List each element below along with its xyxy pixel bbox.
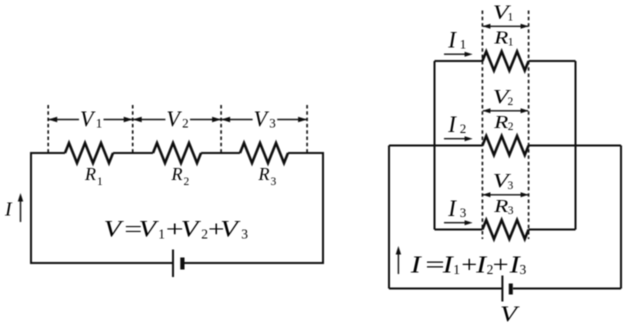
svg-text:R: R (171, 164, 183, 184)
svg-text:3: 3 (271, 176, 277, 188)
svg-text:2: 2 (201, 226, 208, 241)
svg-text:V: V (500, 301, 520, 323)
svg-text:3: 3 (269, 115, 276, 130)
svg-text:I: I (475, 253, 488, 279)
svg-text:V: V (80, 106, 96, 131)
svg-text:+: + (461, 253, 477, 279)
svg-text:1: 1 (508, 11, 514, 23)
svg-text:1: 1 (97, 176, 103, 188)
svg-text:V: V (220, 217, 241, 242)
svg-text:2: 2 (184, 176, 190, 188)
svg-text:2: 2 (182, 115, 189, 130)
svg-text:1: 1 (96, 115, 103, 130)
svg-text:2: 2 (508, 121, 514, 133)
svg-text:3: 3 (508, 180, 514, 192)
svg-text:2: 2 (487, 262, 494, 277)
svg-text:R: R (493, 196, 509, 216)
svg-text:R: R (493, 27, 509, 47)
svg-text:1: 1 (453, 262, 460, 277)
svg-text:3: 3 (520, 262, 527, 277)
svg-text:3: 3 (241, 226, 248, 241)
svg-text:3: 3 (508, 205, 514, 217)
svg-text:+: + (493, 253, 509, 279)
svg-text:I: I (447, 27, 457, 52)
svg-text:I: I (447, 112, 457, 137)
svg-text:I: I (4, 199, 13, 221)
svg-text:R: R (258, 164, 270, 184)
svg-text:V: V (166, 106, 182, 131)
svg-text:1: 1 (508, 37, 514, 49)
svg-text:2: 2 (508, 96, 514, 108)
svg-text:I: I (447, 196, 457, 221)
svg-text:V: V (254, 106, 270, 131)
svg-text:V: V (181, 217, 202, 242)
svg-text:1: 1 (158, 226, 165, 241)
svg-text:I: I (442, 253, 455, 279)
svg-text:V: V (104, 217, 125, 242)
svg-text:1: 1 (460, 36, 467, 51)
svg-text:3: 3 (460, 205, 467, 220)
svg-text:I: I (410, 253, 423, 279)
svg-text:R: R (493, 112, 509, 132)
svg-text:R: R (84, 164, 96, 184)
svg-text:V: V (139, 217, 160, 242)
svg-text:2: 2 (460, 121, 467, 136)
